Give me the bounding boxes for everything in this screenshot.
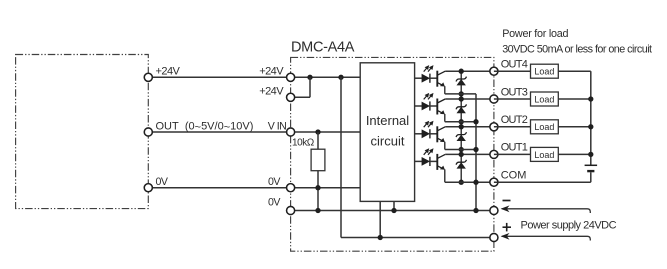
wire +24V (controller to DMC) xyxy=(148,76,290,78)
wire zener chain xyxy=(460,71,462,182)
label OUT2 xyxy=(501,114,528,126)
node V IN / R1 tap xyxy=(315,129,320,134)
label OUT (0-5V/0-10V) xyxy=(156,120,254,133)
node ZD2 cathode xyxy=(459,124,464,129)
svg-text:Internal: Internal xyxy=(366,113,409,128)
wire load 4 to supply rail xyxy=(558,70,591,72)
terminal OUT3 xyxy=(490,95,498,103)
resistor R1 10k lead top xyxy=(317,132,319,149)
svg-text:30VDC 50mA or less for one cir: 30VDC 50mA or less for one circuit xyxy=(502,44,652,56)
terminal OUT1 xyxy=(490,150,498,158)
zener diode ZD2 xyxy=(456,132,466,141)
svg-text:DMC-A4A: DMC-A4A xyxy=(291,40,355,56)
DMC-A4A module (dash-dot box) xyxy=(291,57,494,251)
terminal +24V in xyxy=(287,73,295,81)
label Load 4 xyxy=(534,67,554,77)
resistor R1 lead bottom xyxy=(317,171,319,211)
node rail/0V xyxy=(473,208,478,213)
wire emitter common rail xyxy=(475,94,477,211)
terminal +24V (controller) xyxy=(144,73,152,81)
node J1 on +24V rail xyxy=(307,75,312,80)
wire emitter row 3 to common rail xyxy=(445,121,476,123)
terminal V IN xyxy=(287,128,295,136)
minus sign xyxy=(503,200,511,202)
node ZD3 anode xyxy=(459,119,464,124)
terminal +24V in 2 xyxy=(287,93,295,101)
battery BT1 minus plate xyxy=(587,170,594,172)
LED D1 (opto emitter) xyxy=(415,157,438,166)
load block L2 xyxy=(531,120,559,134)
label 0V left xyxy=(156,176,169,188)
wire load 3 to supply rail xyxy=(558,98,591,100)
svg-text:OUT3: OUT3 xyxy=(501,86,528,98)
wire collector to OUT2 xyxy=(445,126,494,128)
node lead/0V rail xyxy=(391,208,396,213)
terminal 0V (controller) xyxy=(144,184,152,192)
label Load 1 xyxy=(534,150,554,160)
terminal OUT (controller) xyxy=(144,128,152,136)
wire emitter row 2 to common rail xyxy=(445,149,476,151)
label Power supply 24VDC xyxy=(521,220,617,232)
arrow to - terminal xyxy=(501,205,591,213)
LED D2 (opto emitter) xyxy=(415,129,438,138)
load block L4 xyxy=(531,64,559,78)
plus sign xyxy=(503,223,512,232)
svg-text:0V: 0V xyxy=(268,176,281,188)
node lead/+ rail xyxy=(378,235,383,240)
terminal 0V in 2 xyxy=(287,206,295,214)
node rail OUT1 xyxy=(588,152,593,157)
svg-text:OUT4: OUT4 xyxy=(501,59,528,71)
LED D2 emission arrows xyxy=(424,121,434,128)
wire COM line xyxy=(445,181,494,183)
svg-text:+24V: +24V xyxy=(156,65,181,77)
node ZD4 cathode xyxy=(459,69,464,74)
label 0V pin 2 xyxy=(268,196,281,208)
wire OUT2 to load xyxy=(494,126,531,128)
label +24V left xyxy=(156,65,181,77)
internal circuit block U1 xyxy=(360,63,414,202)
svg-text:OUT (0~5V/0~10V): OUT (0~5V/0~10V) xyxy=(156,120,254,133)
wire +24V drop to + supply xyxy=(340,77,342,237)
label Power for load xyxy=(502,28,568,40)
svg-text:0V: 0V xyxy=(156,176,169,188)
svg-text:0V: 0V xyxy=(268,196,281,208)
wire OUT3 to load xyxy=(494,98,531,100)
label 30VDC 50mA or less for one circuit xyxy=(502,44,652,56)
wire internal box lead to + rail xyxy=(379,201,381,237)
node R1/0V junction xyxy=(315,185,320,190)
wire 0V rail 1 xyxy=(291,187,361,189)
svg-text:V IN: V IN xyxy=(268,120,287,132)
terminal + supply xyxy=(490,233,498,241)
node rail OUT3 xyxy=(588,96,593,101)
node ZD4 anode xyxy=(459,91,464,96)
svg-text:+24V: +24V xyxy=(259,65,284,77)
node ZD1 cathode xyxy=(459,152,464,157)
load block L1 xyxy=(531,147,559,161)
wire load supply rail xyxy=(590,71,592,165)
wire + supply rail xyxy=(341,237,494,239)
node ZD1 anode xyxy=(459,180,464,185)
load block L3 xyxy=(531,92,559,106)
wire V IN rail xyxy=(291,131,361,133)
arrow to + terminal xyxy=(501,233,591,241)
LED D1 emission arrows xyxy=(424,148,434,155)
svg-text:COM: COM xyxy=(501,170,527,182)
LED D4 (opto emitter) xyxy=(415,74,438,83)
label OUT1 xyxy=(501,142,528,154)
battery BT1 plus plate xyxy=(585,164,598,166)
wire load 1 to supply rail xyxy=(558,153,591,155)
terminal OUT4 xyxy=(490,67,498,75)
zener diode ZD3 xyxy=(456,104,466,113)
phototransistor Q4 xyxy=(437,71,445,94)
phototransistor Q1 xyxy=(437,154,445,182)
node J2 on +24V rail xyxy=(338,75,343,80)
svg-text:OUT2: OUT2 xyxy=(501,114,528,126)
svg-text:+24V: +24V xyxy=(259,85,284,97)
label OUT3 xyxy=(501,86,528,98)
wire 0V rail 2 (to - terminal) xyxy=(291,210,494,212)
svg-text:Load: Load xyxy=(534,67,554,77)
wire OUT/V IN (controller to DMC) xyxy=(148,131,290,133)
phototransistor Q2 xyxy=(437,126,445,149)
svg-text:Power supply 24VDC: Power supply 24VDC xyxy=(521,220,617,232)
wire battery to COM xyxy=(494,172,591,182)
LED D3 emission arrows xyxy=(424,93,434,100)
label Load 2 xyxy=(534,122,554,132)
label DMC-A4A xyxy=(291,40,355,56)
wire OUT4 to load xyxy=(494,70,531,72)
wire collector to OUT1 xyxy=(445,153,494,155)
LED D4 emission arrows xyxy=(424,65,434,72)
wire collector to OUT3 xyxy=(445,98,494,100)
LED D3 (opto emitter) xyxy=(415,101,438,110)
label Load 3 xyxy=(534,94,554,104)
phototransistor Q3 xyxy=(437,99,445,122)
wire emitter row 4 to common rail xyxy=(445,93,476,95)
resistor R1 10k body xyxy=(311,149,325,171)
controller (dash-dot box) xyxy=(16,55,149,209)
label 0V pin xyxy=(268,176,281,188)
terminal 0V in xyxy=(287,184,295,192)
label Internal circuit xyxy=(366,113,409,149)
wire internal box lead to 0V rail xyxy=(393,201,395,210)
label COM xyxy=(501,170,527,182)
label 10k ohm xyxy=(292,137,315,148)
terminal OUT2 xyxy=(490,123,498,131)
wire 0V (controller to DMC) xyxy=(148,187,290,189)
wire OUT1 to load xyxy=(494,153,531,155)
wire +24V rail xyxy=(291,76,361,78)
node ZD3 cathode xyxy=(459,96,464,101)
zener diode ZD1 xyxy=(456,160,466,169)
svg-text:10kΩ: 10kΩ xyxy=(292,137,315,148)
terminal - supply xyxy=(490,206,498,214)
label OUT4 xyxy=(501,59,528,71)
svg-text:Power for load: Power for load xyxy=(502,28,568,40)
label +24V pin 2 xyxy=(259,85,284,97)
node rail/COM xyxy=(473,180,478,185)
svg-text:Load: Load xyxy=(534,94,554,104)
wire jumper +24V to second terminal xyxy=(291,77,310,97)
label +24V pin xyxy=(259,65,284,77)
node rail OUT2 xyxy=(588,124,593,129)
wire collector to OUT4 xyxy=(445,70,494,72)
node 0V rail2 junction xyxy=(315,208,320,213)
svg-text:OUT1: OUT1 xyxy=(501,142,528,154)
zener diode ZD4 xyxy=(456,77,466,86)
node ZD2 anode xyxy=(459,147,464,152)
svg-text:Load: Load xyxy=(534,150,554,160)
terminal COM xyxy=(490,178,498,186)
svg-text:Load: Load xyxy=(534,122,554,132)
wire load 2 to supply rail xyxy=(558,126,591,128)
label V IN pin xyxy=(268,120,287,132)
svg-text:circuit: circuit xyxy=(371,133,405,148)
node rail/row2 xyxy=(473,147,478,152)
node rail/row3 xyxy=(473,119,478,124)
